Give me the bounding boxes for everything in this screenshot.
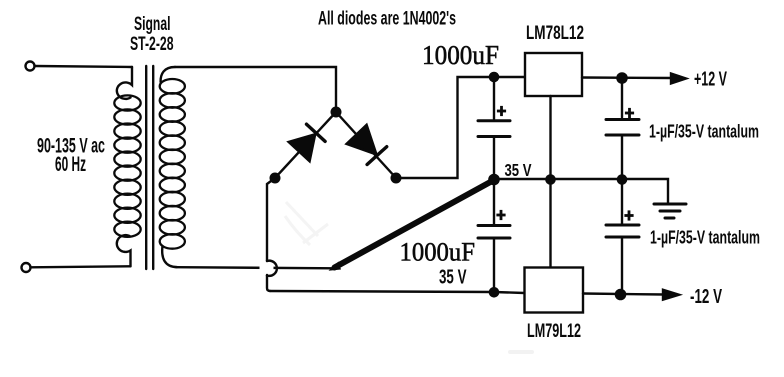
svg-text:+12 V: +12 V: [694, 69, 727, 91]
capacitor C2 wire bottom: [493, 240, 495, 293]
capacitor C4 wire bottom: [621, 239, 623, 295]
capacitor C4 plates: [606, 224, 639, 227]
capacitor C3 tantalum wire top: [621, 78, 623, 118]
wire bridge left node down: [267, 178, 275, 261]
capacitor C4 tantalum wire top: [621, 179, 623, 224]
svg-text:1-µF/35-V tantalum: 1-µF/35-V tantalum: [649, 122, 759, 142]
wire hop white mask: [260, 263, 274, 274]
transformer T1 secondary lead-out: [162, 246, 177, 267]
plus C4: [624, 214, 633, 217]
plus C1: [497, 110, 506, 113]
wire bridge right node to top rail: [396, 77, 525, 178]
svg-text:ST-2-28: ST-2-28: [130, 34, 174, 55]
wire bottom input: [31, 266, 131, 267]
wire top input: [35, 66, 132, 67]
ghost marks (erased diodes, faint): [285, 202, 328, 245]
wire U1 output: [582, 76, 672, 79]
diode D1 wire: [275, 112, 336, 178]
wire bottom rail: [270, 291, 525, 293]
ground symbol: [654, 203, 686, 206]
diode D1 cathode bar: [307, 124, 326, 141]
transformer T1 primary lead-in: [117, 67, 132, 99]
diode D2 triangle: [347, 125, 377, 155]
svg-text:1000uF: 1000uF: [422, 39, 499, 70]
capacitor C1 plates: [478, 119, 510, 122]
regulator U2 LM79L12 box: [525, 268, 584, 313]
wire secondary top to bridge: [175, 67, 336, 112]
transformer T1 primary lead-out: [117, 235, 131, 266]
wire secondary bottom to thick link: [176, 267, 335, 268]
capacitor C3 plates: [606, 118, 639, 121]
arrow +12V: [671, 74, 686, 84]
transformer T1 secondary winding: [160, 79, 185, 249]
diode D2 cathode bar: [367, 147, 387, 165]
input terminal top: [26, 62, 35, 71]
wire middle common row: [494, 179, 668, 203]
transformer T1 primary winding: [114, 95, 140, 237]
svg-text:60 Hz: 60 Hz: [55, 153, 86, 176]
regulator U1 LM78L12 box: [525, 53, 582, 96]
svg-text:-12 V: -12 V: [690, 286, 722, 308]
svg-text:1000uF: 1000uF: [400, 237, 476, 267]
capacitor C3 wire bottom: [621, 137, 623, 180]
thick link wire (secondary to 35V node): [335, 180, 495, 268]
svg-text:All diodes are 1N4002's: All diodes are 1N4002's: [318, 9, 456, 30]
svg-text:LM79L12: LM79L12: [527, 321, 581, 342]
arrow -12V: [663, 290, 679, 300]
transformer T1 secondary lead-in: [161, 67, 175, 82]
capacitor C2 plates: [478, 224, 510, 227]
wire U2 output: [583, 294, 664, 295]
wire below hop to bottom rail: [267, 275, 270, 291]
faint smudge: [508, 350, 534, 354]
transformer T1 core: [146, 66, 153, 269]
diode D1 triangle: [289, 134, 316, 161]
plus C2: [496, 214, 505, 217]
regulator U1 center pin / U2 top pin: [549, 96, 551, 268]
plus C3: [625, 112, 634, 115]
capacitor C2 wire top: [493, 179, 495, 224]
capacitor C1 wire bottom: [493, 138, 495, 179]
svg-text:Signal: Signal: [134, 14, 171, 35]
thick link wire pointed tip: [329, 262, 342, 271]
svg-text:1-µF/35-V tantalum: 1-µF/35-V tantalum: [650, 228, 760, 248]
diode D2 wire: [336, 112, 396, 178]
wire hop over: [267, 261, 277, 276]
svg-text:35 V: 35 V: [505, 160, 532, 180]
input terminal bottom: [22, 263, 31, 272]
svg-text:35 V: 35 V: [439, 266, 467, 289]
capacitor C1 wire top: [493, 77, 495, 119]
svg-text:LM78L12: LM78L12: [526, 23, 584, 44]
